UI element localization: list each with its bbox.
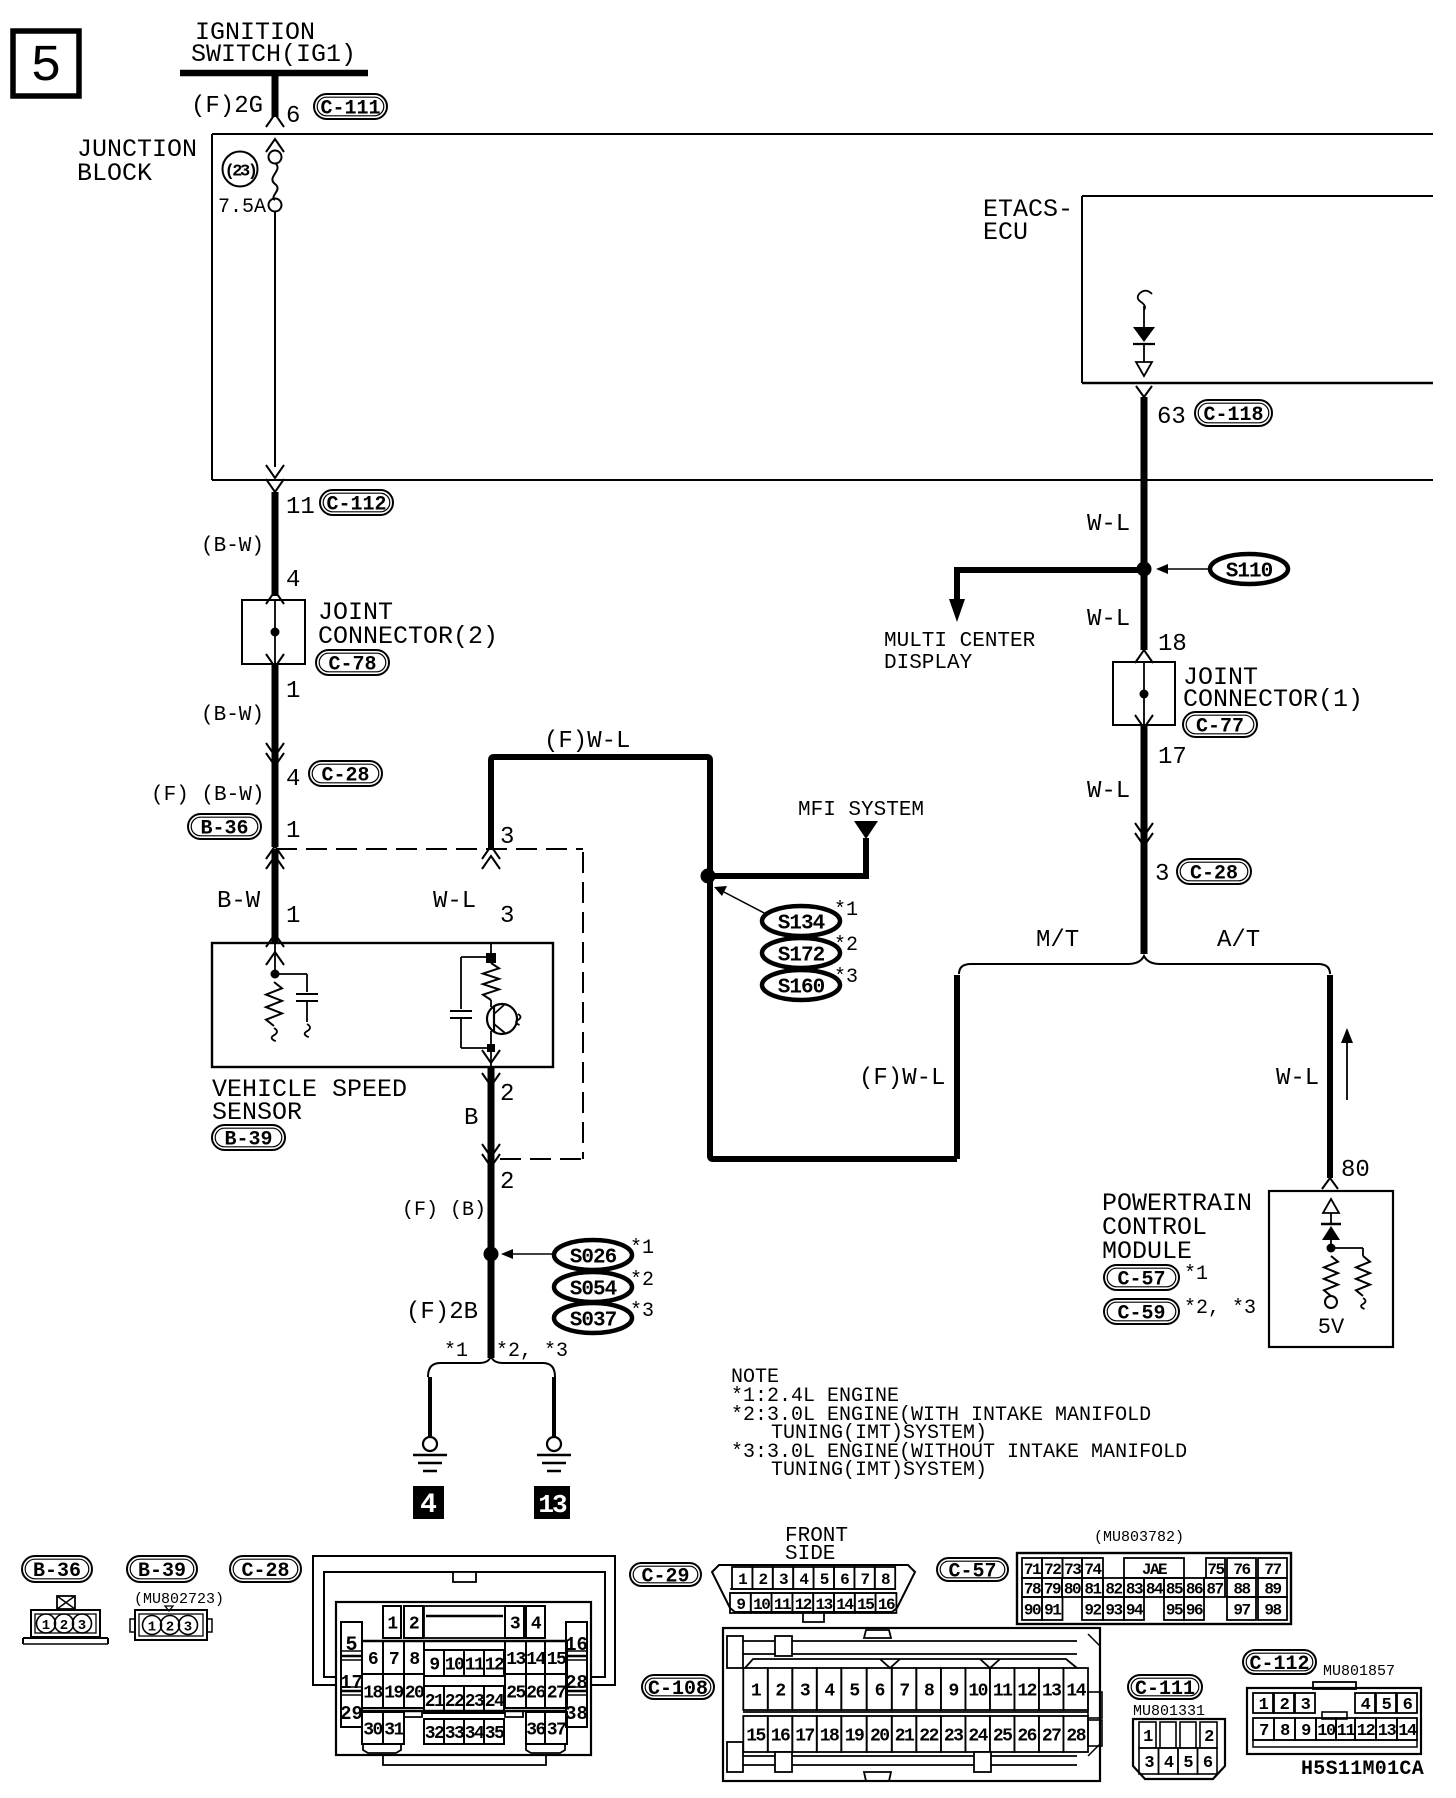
svg-text:12: 12 <box>485 1655 504 1675</box>
svg-text:12: 12 <box>1357 1722 1376 1741</box>
svg-text:JAE: JAE <box>1142 1561 1167 1579</box>
svg-text:W-L: W-L <box>1087 511 1130 538</box>
svg-text:3: 3 <box>1144 1754 1154 1773</box>
svg-text:C-108: C-108 <box>648 1678 708 1701</box>
svg-text:1: 1 <box>1259 1696 1269 1715</box>
svg-text:SWITCH(IG1): SWITCH(IG1) <box>191 40 356 69</box>
svg-text:16: 16 <box>878 1596 895 1614</box>
svg-text:3: 3 <box>500 903 514 930</box>
svg-text:13: 13 <box>815 1596 832 1614</box>
svg-text:85: 85 <box>1166 1580 1183 1598</box>
svg-text:77: 77 <box>1264 1561 1281 1579</box>
svg-text:98: 98 <box>1264 1601 1281 1619</box>
svg-text:82: 82 <box>1105 1580 1122 1598</box>
svg-text:2: 2 <box>1204 1728 1214 1747</box>
svg-text:18: 18 <box>820 1726 839 1746</box>
svg-text:24: 24 <box>485 1692 505 1712</box>
svg-text:9: 9 <box>429 1655 439 1675</box>
svg-text:15: 15 <box>547 1650 566 1670</box>
svg-text:95: 95 <box>1166 1601 1183 1619</box>
svg-text:80: 80 <box>1341 1157 1370 1184</box>
svg-text:4: 4 <box>1164 1754 1174 1773</box>
svg-text:71: 71 <box>1024 1561 1041 1579</box>
svg-text:24: 24 <box>968 1726 988 1746</box>
svg-text:83: 83 <box>1126 1580 1143 1598</box>
svg-text:4: 4 <box>286 766 300 793</box>
svg-text:93: 93 <box>1105 1601 1122 1619</box>
svg-text:63: 63 <box>1157 404 1186 431</box>
svg-text:S134: S134 <box>778 913 825 936</box>
svg-text:11: 11 <box>465 1655 485 1675</box>
svg-text:7: 7 <box>899 1681 909 1701</box>
svg-text:(B-W): (B-W) <box>201 704 264 727</box>
svg-text:5: 5 <box>849 1681 859 1701</box>
svg-text:7: 7 <box>389 1650 399 1670</box>
svg-text:*1: *1 <box>630 1237 654 1260</box>
svg-text:34: 34 <box>465 1724 485 1744</box>
svg-text:12: 12 <box>1017 1681 1036 1701</box>
svg-text:C-57: C-57 <box>1117 1269 1165 1292</box>
svg-text:9: 9 <box>736 1596 745 1614</box>
svg-text:6: 6 <box>1403 1696 1413 1715</box>
svg-text:B-36: B-36 <box>200 818 248 841</box>
svg-text:B-39: B-39 <box>138 1560 186 1583</box>
svg-text:3: 3 <box>510 1614 520 1634</box>
svg-text:2: 2 <box>500 1169 514 1196</box>
svg-text:5: 5 <box>1382 1696 1392 1715</box>
svg-text:28: 28 <box>1066 1726 1085 1746</box>
svg-text:3: 3 <box>779 1571 788 1589</box>
svg-text:5: 5 <box>30 37 61 96</box>
svg-text:4: 4 <box>420 1490 437 1521</box>
svg-text:(MU802723): (MU802723) <box>134 1591 224 1608</box>
svg-text:B-36: B-36 <box>33 1560 81 1583</box>
svg-text:C-28: C-28 <box>321 765 369 788</box>
svg-text:8: 8 <box>409 1650 419 1670</box>
svg-text:(23): (23) <box>225 163 256 182</box>
svg-text:12: 12 <box>795 1596 812 1614</box>
svg-text:1: 1 <box>286 678 300 705</box>
svg-text:8: 8 <box>1280 1722 1290 1741</box>
svg-text:1: 1 <box>1143 1728 1153 1747</box>
svg-text:1: 1 <box>738 1571 747 1589</box>
svg-text:72: 72 <box>1044 1561 1061 1579</box>
svg-text:ECU: ECU <box>983 218 1028 247</box>
svg-text:*1: *1 <box>834 899 858 922</box>
svg-text:11: 11 <box>286 494 315 521</box>
svg-text:C-57: C-57 <box>948 1561 996 1584</box>
svg-text:(F)W-L: (F)W-L <box>859 1065 945 1092</box>
svg-text:5: 5 <box>1183 1754 1193 1773</box>
svg-text:14: 14 <box>1398 1722 1417 1741</box>
svg-text:25: 25 <box>506 1683 525 1703</box>
svg-text:*2, *3: *2, *3 <box>1184 1297 1256 1320</box>
svg-text:*1: *1 <box>444 1340 468 1363</box>
svg-text:2: 2 <box>775 1681 785 1701</box>
svg-text:5V: 5V <box>1318 1315 1345 1340</box>
svg-text:13: 13 <box>1042 1681 1061 1701</box>
svg-text:S026: S026 <box>570 1247 617 1270</box>
svg-text:(F) (B-W): (F) (B-W) <box>151 784 264 807</box>
svg-text:88: 88 <box>1233 1580 1250 1598</box>
svg-text:13: 13 <box>538 1490 567 1520</box>
svg-text:11: 11 <box>1337 1722 1356 1741</box>
svg-text:22: 22 <box>919 1726 938 1746</box>
svg-text:DISPLAY: DISPLAY <box>884 652 973 675</box>
svg-text:CONNECTOR(2): CONNECTOR(2) <box>318 622 498 651</box>
svg-text:97: 97 <box>1233 1601 1250 1619</box>
svg-text:27: 27 <box>547 1683 566 1703</box>
svg-text:C-59: C-59 <box>1117 1303 1165 1326</box>
svg-text:S054: S054 <box>570 1279 617 1302</box>
svg-text:6: 6 <box>840 1571 849 1589</box>
svg-text:89: 89 <box>1264 1580 1281 1598</box>
svg-text:3: 3 <box>500 824 514 851</box>
svg-text:*2, *3: *2, *3 <box>496 1340 568 1363</box>
svg-text:W-L: W-L <box>1087 778 1130 805</box>
svg-text:4: 4 <box>1361 1696 1371 1715</box>
svg-text:18: 18 <box>1158 631 1187 658</box>
svg-text:2: 2 <box>759 1571 768 1589</box>
svg-text:15: 15 <box>746 1726 765 1746</box>
svg-text:(F)W-L: (F)W-L <box>544 728 630 755</box>
svg-text:(B-W): (B-W) <box>201 535 264 558</box>
svg-text:B: B <box>464 1105 478 1132</box>
svg-text:(F)2B: (F)2B <box>406 1299 478 1326</box>
svg-text:96: 96 <box>1186 1601 1203 1619</box>
svg-text:2: 2 <box>500 1081 514 1108</box>
svg-text:C-112: C-112 <box>326 494 386 517</box>
svg-text:MODULE: MODULE <box>1102 1237 1192 1266</box>
svg-text:2: 2 <box>409 1614 419 1634</box>
svg-text:35: 35 <box>485 1724 504 1744</box>
svg-text:1: 1 <box>286 818 300 845</box>
svg-text:*3: *3 <box>630 1300 654 1323</box>
svg-text:M/T: M/T <box>1036 927 1079 954</box>
svg-text:4: 4 <box>286 567 300 594</box>
svg-text:13: 13 <box>1378 1722 1397 1741</box>
svg-text:C-28: C-28 <box>241 1560 289 1583</box>
svg-text:S172: S172 <box>778 945 825 968</box>
svg-text:7: 7 <box>861 1571 870 1589</box>
svg-text:91: 91 <box>1044 1601 1061 1619</box>
svg-text:79: 79 <box>1044 1580 1061 1598</box>
svg-text:18: 18 <box>363 1683 382 1703</box>
svg-text:H5S11M01CA: H5S11M01CA <box>1301 1758 1424 1781</box>
svg-text:81: 81 <box>1084 1580 1101 1598</box>
svg-text:C-77: C-77 <box>1196 716 1244 739</box>
svg-text:73: 73 <box>1064 1561 1081 1579</box>
svg-text:21: 21 <box>895 1726 915 1746</box>
svg-text:3: 3 <box>1301 1696 1311 1715</box>
svg-text:37: 37 <box>547 1720 566 1740</box>
svg-text:TUNING(IMT)SYSTEM): TUNING(IMT)SYSTEM) <box>771 1459 987 1482</box>
svg-text:MULTI CENTER: MULTI CENTER <box>884 630 1036 653</box>
svg-text:25: 25 <box>993 1726 1012 1746</box>
svg-text:10: 10 <box>445 1655 464 1675</box>
svg-text:S160: S160 <box>778 977 825 1000</box>
svg-text:20: 20 <box>405 1683 424 1703</box>
svg-text:*2: *2 <box>630 1269 654 1292</box>
svg-text:14: 14 <box>1066 1681 1086 1701</box>
svg-text:22: 22 <box>445 1692 464 1712</box>
svg-text:2: 2 <box>166 1620 174 1636</box>
svg-text:10: 10 <box>968 1681 987 1701</box>
svg-text:5: 5 <box>820 1571 829 1589</box>
svg-text:B-W: B-W <box>217 888 261 915</box>
svg-text:29: 29 <box>340 1703 363 1725</box>
svg-text:C-111: C-111 <box>320 98 380 121</box>
svg-text:C-78: C-78 <box>328 654 376 677</box>
svg-text:(MU803782): (MU803782) <box>1094 1529 1184 1546</box>
svg-text:7.5A: 7.5A <box>218 196 266 219</box>
svg-text:27: 27 <box>1042 1726 1061 1746</box>
svg-text:6: 6 <box>368 1650 378 1670</box>
svg-text:C-111: C-111 <box>1135 1678 1195 1701</box>
svg-text:6: 6 <box>875 1681 885 1701</box>
svg-text:33: 33 <box>445 1724 464 1744</box>
svg-text:9: 9 <box>948 1681 958 1701</box>
svg-text:3: 3 <box>184 1620 192 1636</box>
svg-text:1: 1 <box>148 1620 156 1636</box>
svg-text:10: 10 <box>1317 1722 1336 1741</box>
svg-text:17: 17 <box>795 1726 814 1746</box>
svg-text:B-39: B-39 <box>224 1129 272 1152</box>
svg-text:23: 23 <box>465 1692 484 1712</box>
svg-text:5: 5 <box>345 1634 357 1657</box>
svg-text:2: 2 <box>1280 1696 1290 1715</box>
svg-text:(F)2G: (F)2G <box>191 93 263 120</box>
svg-text:78: 78 <box>1024 1580 1041 1598</box>
svg-text:75: 75 <box>1207 1561 1224 1579</box>
svg-text:C-118: C-118 <box>1203 404 1263 427</box>
svg-text:90: 90 <box>1024 1601 1041 1619</box>
svg-text:S110: S110 <box>1226 561 1273 584</box>
svg-text:10: 10 <box>753 1596 770 1614</box>
svg-text:26: 26 <box>526 1683 545 1703</box>
svg-text:MFI SYSTEM: MFI SYSTEM <box>798 799 924 822</box>
svg-text:14: 14 <box>836 1596 854 1614</box>
svg-text:BLOCK: BLOCK <box>77 159 152 188</box>
svg-text:1: 1 <box>286 903 300 930</box>
svg-text:11: 11 <box>993 1681 1013 1701</box>
svg-text:36: 36 <box>526 1720 545 1740</box>
svg-text:*2: *2 <box>834 934 858 957</box>
svg-text:W-L: W-L <box>433 888 476 915</box>
svg-text:76: 76 <box>1233 1561 1250 1579</box>
svg-text:20: 20 <box>870 1726 889 1746</box>
svg-text:30: 30 <box>363 1720 382 1740</box>
svg-text:1: 1 <box>42 1618 50 1634</box>
svg-text:16: 16 <box>771 1726 790 1746</box>
svg-text:*1: *1 <box>1184 1263 1208 1286</box>
svg-text:19: 19 <box>845 1726 864 1746</box>
svg-text:16: 16 <box>565 1634 588 1656</box>
svg-text:*3: *3 <box>834 966 858 989</box>
svg-text:19: 19 <box>384 1683 403 1703</box>
svg-text:C-29: C-29 <box>641 1566 689 1589</box>
svg-text:6: 6 <box>1203 1754 1213 1773</box>
svg-text:87: 87 <box>1206 1580 1223 1598</box>
svg-text:13: 13 <box>506 1650 525 1670</box>
svg-text:CONNECTOR(1): CONNECTOR(1) <box>1183 685 1363 714</box>
svg-text:SENSOR: SENSOR <box>212 1098 302 1127</box>
svg-text:C-112: C-112 <box>1249 1653 1309 1676</box>
svg-text:23: 23 <box>944 1726 963 1746</box>
svg-text:7: 7 <box>1259 1722 1269 1741</box>
svg-text:92: 92 <box>1084 1601 1101 1619</box>
svg-text:94: 94 <box>1126 1601 1144 1619</box>
svg-text:C-28: C-28 <box>1190 863 1238 886</box>
svg-text:31: 31 <box>384 1720 404 1740</box>
svg-text:74: 74 <box>1084 1561 1102 1579</box>
svg-text:3: 3 <box>78 1618 86 1634</box>
svg-text:80: 80 <box>1064 1580 1081 1598</box>
svg-text:8: 8 <box>924 1681 934 1701</box>
svg-text:32: 32 <box>425 1724 444 1744</box>
svg-text:MU801331: MU801331 <box>1133 1703 1205 1720</box>
svg-text:17: 17 <box>1158 744 1187 771</box>
svg-text:A/T: A/T <box>1217 927 1260 954</box>
svg-text:11: 11 <box>774 1596 791 1614</box>
svg-text:2: 2 <box>60 1618 68 1634</box>
svg-text:8: 8 <box>881 1571 890 1589</box>
svg-text:SIDE: SIDE <box>785 1543 835 1566</box>
svg-text:84: 84 <box>1146 1580 1164 1598</box>
svg-text:W-L: W-L <box>1276 1065 1319 1092</box>
svg-text:38: 38 <box>565 1703 588 1725</box>
svg-text:26: 26 <box>1017 1726 1036 1746</box>
svg-text:6: 6 <box>286 103 300 130</box>
svg-text:3: 3 <box>800 1681 810 1701</box>
svg-text:21: 21 <box>425 1692 445 1712</box>
svg-text:14: 14 <box>526 1650 546 1670</box>
svg-text:15: 15 <box>857 1596 874 1614</box>
svg-text:(F) (B): (F) (B) <box>402 1199 486 1222</box>
svg-text:9: 9 <box>1301 1722 1311 1741</box>
svg-text:86: 86 <box>1186 1580 1203 1598</box>
svg-text:W-L: W-L <box>1087 606 1130 633</box>
svg-text:3: 3 <box>1155 861 1169 888</box>
svg-text:S037: S037 <box>570 1310 617 1333</box>
svg-text:MU801857: MU801857 <box>1323 1663 1395 1680</box>
